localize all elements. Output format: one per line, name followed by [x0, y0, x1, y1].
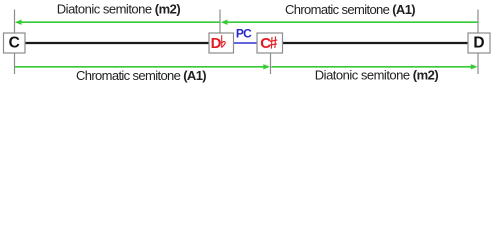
- node Db box: [209, 33, 234, 53]
- flat sign of Db: [222, 35, 226, 48]
- arrow: diatonic semitone m2 (bottom right, rightwards): [272, 64, 478, 69]
- tick above node D: [477, 10, 479, 34]
- svg-text:C: C: [9, 35, 20, 52]
- wire C# to D (pitch axis): [283, 42, 468, 44]
- arrow: chromatic semitone A1 (top right, leftwards): [221, 20, 478, 25]
- wire C to Db (pitch axis): [25, 42, 209, 44]
- svg-text:Chromatic semitone (A1): Chromatic semitone (A1): [76, 68, 206, 83]
- svg-text:PC: PC: [236, 27, 252, 41]
- node D box: [468, 33, 490, 53]
- sharp sign of C#: [269, 36, 277, 48]
- svg-text:C: C: [260, 35, 271, 52]
- svg-text:D: D: [473, 35, 484, 52]
- node C# box: [257, 33, 283, 53]
- arrow: chromatic semitone A1 (bottom left, rightwards): [15, 64, 270, 69]
- tick below node C: [14, 53, 16, 74]
- svg-text:Chromatic semitone (A1): Chromatic semitone (A1): [285, 2, 415, 17]
- tick below node D: [477, 53, 479, 74]
- wire Db to C# (enharmonic PC link, blue): [234, 42, 258, 44]
- tick above node C: [14, 10, 16, 34]
- arrow: diatonic semitone m2 (top left, leftwards): [15, 20, 220, 25]
- node C box: [4, 33, 26, 53]
- svg-text:Diatonic semitone (m2): Diatonic semitone (m2): [315, 67, 439, 82]
- svg-text:Diatonic semitone (m2): Diatonic semitone (m2): [57, 1, 181, 16]
- tick below node C#: [270, 53, 272, 74]
- tick above node Db: [219, 10, 221, 34]
- svg-text:D: D: [211, 35, 222, 52]
